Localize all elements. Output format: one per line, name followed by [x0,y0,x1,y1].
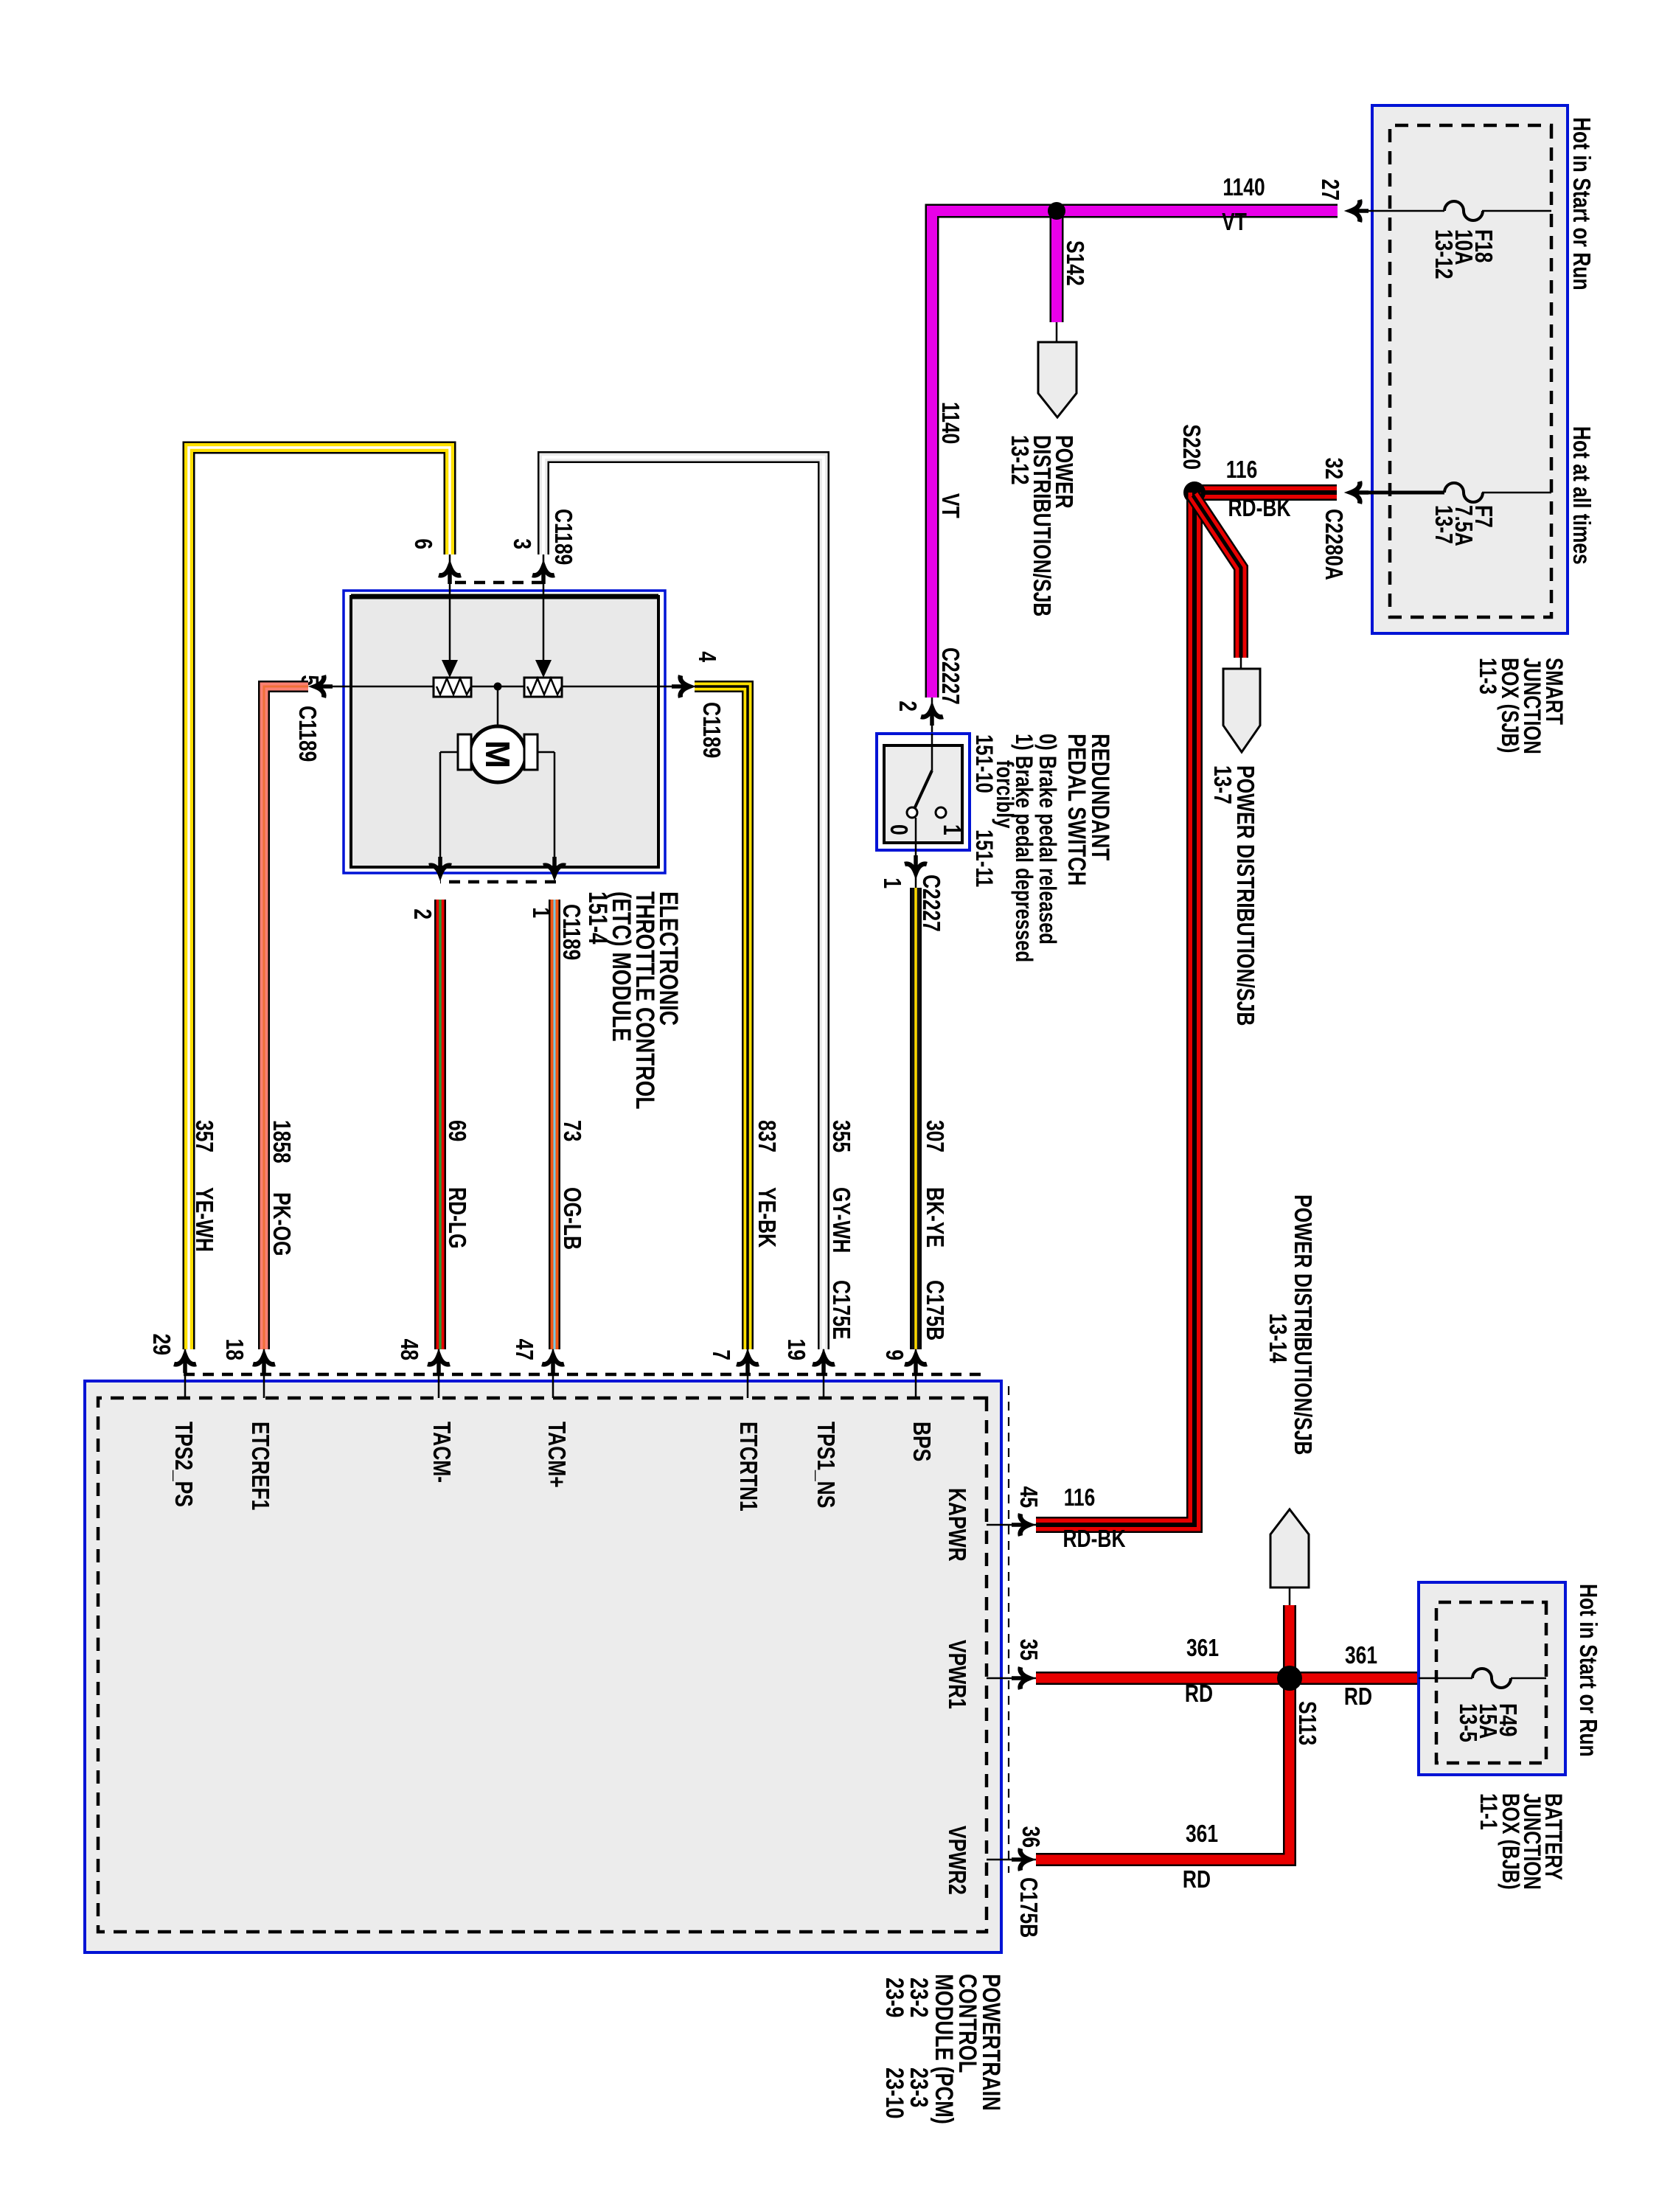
svg-text:29: 29 [147,1334,174,1355]
svg-text:13-7: 13-7 [1430,505,1456,544]
svg-text:S142: S142 [1061,240,1088,286]
svg-text:Hot in Start or Run: Hot in Start or Run [1574,1584,1601,1757]
svg-text:23-9: 23-9 [880,1978,909,2017]
svg-text:151-10: 151-10 [970,734,996,793]
svg-text:TPS2_PS: TPS2_PS [170,1422,196,1507]
svg-text:C1189: C1189 [549,509,576,565]
svg-text:361: 361 [1186,1820,1218,1847]
svg-text:0: 0 [885,824,911,835]
svg-text:YE-BK: YE-BK [753,1187,779,1248]
svg-text:357: 357 [190,1120,217,1152]
svg-text:2: 2 [894,700,920,712]
svg-text:C175B: C175B [921,1280,947,1340]
svg-text:S113: S113 [1293,1701,1320,1745]
svg-text:RD: RD [1344,1683,1372,1710]
svg-text:KAPWR: KAPWR [943,1488,970,1562]
svg-text:C1189: C1189 [698,702,724,758]
svg-text:35: 35 [1015,1639,1041,1660]
svg-text:M: M [479,740,517,768]
svg-text:307: 307 [921,1120,947,1152]
svg-text:9: 9 [880,1349,907,1360]
svg-text:TACM-: TACM- [428,1422,454,1483]
svg-text:C2280A: C2280A [1320,509,1346,580]
svg-text:4: 4 [693,651,720,662]
svg-text:S220: S220 [1178,424,1204,470]
svg-text:69: 69 [443,1120,470,1141]
svg-text:13-12: 13-12 [1430,229,1456,279]
svg-text:11-1: 11-1 [1475,1793,1500,1830]
svg-text:27: 27 [1316,179,1343,201]
svg-text:POWER DISTRIBUTION/SJB: POWER DISTRIBUTION/SJB [1289,1194,1315,1455]
svg-text:32: 32 [1320,458,1346,479]
svg-text:VPWR2: VPWR2 [943,1826,970,1895]
svg-text:48: 48 [395,1339,422,1360]
svg-text:RD-LG: RD-LG [443,1187,470,1249]
svg-text:361: 361 [1186,1635,1219,1661]
svg-text:TACM+: TACM+ [543,1422,569,1488]
svg-text:1140: 1140 [1222,174,1265,201]
svg-text:837: 837 [753,1120,779,1152]
svg-text:11-3: 11-3 [1474,658,1500,695]
svg-text:2: 2 [408,908,435,919]
svg-text:PEDAL SWITCH: PEDAL SWITCH [1062,734,1091,886]
svg-text:1: 1 [878,877,905,888]
svg-text:C1189: C1189 [293,706,320,762]
svg-text:BK-YE: BK-YE [921,1187,947,1248]
svg-text:0) Brake pedal released: 0) Brake pedal released [1034,734,1060,945]
svg-text:13-12: 13-12 [1006,435,1032,485]
svg-text:45: 45 [1015,1486,1041,1508]
svg-text:VT: VT [1222,209,1247,235]
svg-text:6: 6 [409,538,436,549]
svg-text:C2227: C2227 [936,647,963,705]
svg-text:1140: 1140 [936,402,963,444]
svg-text:13-5: 13-5 [1454,1703,1481,1742]
svg-text:Hot in Start or Run: Hot in Start or Run [1568,117,1594,291]
svg-text:POWER DISTRIBUTION/SJB: POWER DISTRIBUTION/SJB [1231,765,1258,1026]
svg-text:OG-LB: OG-LB [558,1187,585,1250]
svg-text:BPS: BPS [908,1422,934,1461]
svg-text:RD: RD [1185,1680,1213,1707]
svg-text:3: 3 [508,538,535,549]
svg-text:47: 47 [510,1339,537,1360]
svg-text:C175B: C175B [1015,1877,1041,1938]
svg-text:VPWR1: VPWR1 [943,1640,970,1709]
svg-text:C1189: C1189 [557,904,584,960]
svg-text:ETCREF1: ETCREF1 [246,1422,273,1510]
svg-text:23-10: 23-10 [880,2067,909,2119]
svg-text:GY-WH: GY-WH [827,1187,854,1253]
svg-text:116: 116 [1226,456,1258,483]
svg-text:116: 116 [1064,1484,1096,1511]
svg-text:13-7: 13-7 [1208,765,1235,804]
svg-text:VT: VT [936,493,963,518]
svg-text:RD: RD [1183,1866,1211,1893]
svg-text:151-4: 151-4 [583,891,613,945]
svg-text:RD-BK: RD-BK [1228,495,1290,521]
svg-text:YE-WH: YE-WH [190,1187,217,1252]
svg-text:RD-BK: RD-BK [1062,1526,1125,1552]
svg-text:TPS1_NS: TPS1_NS [812,1422,838,1508]
svg-text:151-11: 151-11 [970,829,996,887]
svg-text:MODULE (PCM): MODULE (PCM) [930,1974,959,2124]
svg-text:73: 73 [558,1120,585,1141]
svg-text:7: 7 [707,1349,734,1360]
svg-text:355: 355 [827,1120,854,1152]
svg-text:Hot at all times: Hot at all times [1568,426,1594,565]
svg-text:C175E: C175E [827,1280,854,1340]
svg-text:19: 19 [782,1339,809,1360]
svg-text:PK-OG: PK-OG [268,1192,294,1256]
svg-text:ETCRTN1: ETCRTN1 [734,1422,761,1512]
svg-text:1: 1 [938,824,964,835]
svg-text:361: 361 [1345,1642,1377,1669]
svg-text:36: 36 [1017,1826,1043,1848]
svg-text:1858: 1858 [268,1120,294,1164]
svg-text:13-14: 13-14 [1264,1313,1290,1363]
svg-text:18: 18 [220,1339,247,1360]
